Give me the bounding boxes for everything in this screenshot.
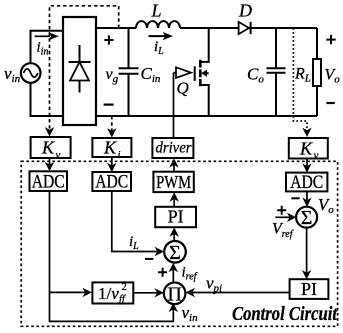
svg-text:i: i (118, 149, 121, 161)
svg-text:D: D (238, 1, 252, 21)
svg-text:v: v (56, 149, 61, 161)
svg-text:2: 2 (122, 282, 127, 293)
svg-text:Σ: Σ (301, 207, 313, 229)
svg-text:v: v (314, 150, 319, 162)
svg-text:K: K (41, 138, 55, 158)
svg-text:PWM: PWM (156, 172, 191, 192)
svg-text:K: K (299, 139, 313, 159)
svg-text:ADC: ADC (290, 172, 323, 193)
svg-text:L: L (151, 1, 162, 21)
svg-text:Control Circuit: Control Circuit (232, 303, 338, 325)
svg-text:1/v: 1/v (98, 284, 119, 303)
svg-text:Π: Π (167, 284, 181, 306)
svg-text:ADC: ADC (95, 172, 128, 193)
svg-text:PI: PI (301, 279, 317, 299)
svg-text:K: K (103, 138, 117, 158)
svg-text:PI: PI (168, 207, 184, 227)
svg-text:ADC: ADC (32, 172, 65, 193)
svg-text:Q: Q (177, 79, 189, 98)
svg-text:Σ: Σ (169, 242, 181, 264)
svg-text:driver: driver (156, 140, 193, 157)
